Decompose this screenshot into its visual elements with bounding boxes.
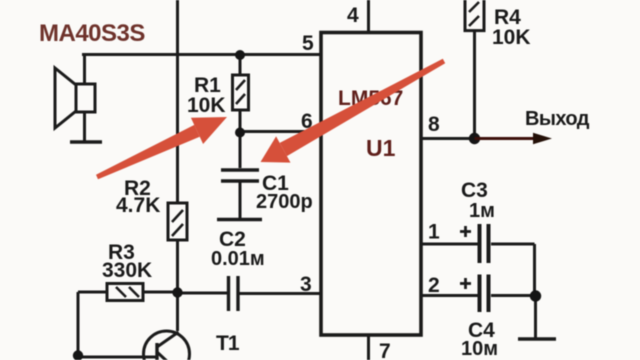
svg-text:Выход: Выход bbox=[525, 108, 590, 130]
svg-text:MA40S3S: MA40S3S bbox=[39, 20, 145, 47]
svg-text:2: 2 bbox=[428, 274, 440, 297]
svg-text:10K: 10K bbox=[492, 26, 531, 49]
svg-text:C3: C3 bbox=[461, 179, 488, 202]
svg-text:10K: 10K bbox=[187, 94, 226, 117]
svg-text:3: 3 bbox=[300, 273, 312, 296]
svg-text:2700p: 2700p bbox=[256, 191, 313, 213]
svg-text:10м: 10м bbox=[461, 338, 498, 360]
svg-text:T1: T1 bbox=[216, 332, 240, 355]
svg-text:U1: U1 bbox=[366, 135, 396, 161]
svg-text:8: 8 bbox=[428, 113, 440, 136]
svg-text:0.01м: 0.01м bbox=[211, 248, 265, 270]
svg-text:5: 5 bbox=[302, 32, 314, 55]
svg-text:7: 7 bbox=[379, 340, 391, 360]
svg-text:4.7K: 4.7K bbox=[116, 194, 160, 217]
svg-text:1: 1 bbox=[428, 221, 440, 244]
svg-text:1м: 1м bbox=[469, 200, 495, 222]
svg-text:330K: 330K bbox=[102, 259, 152, 282]
svg-text:4: 4 bbox=[347, 4, 359, 27]
